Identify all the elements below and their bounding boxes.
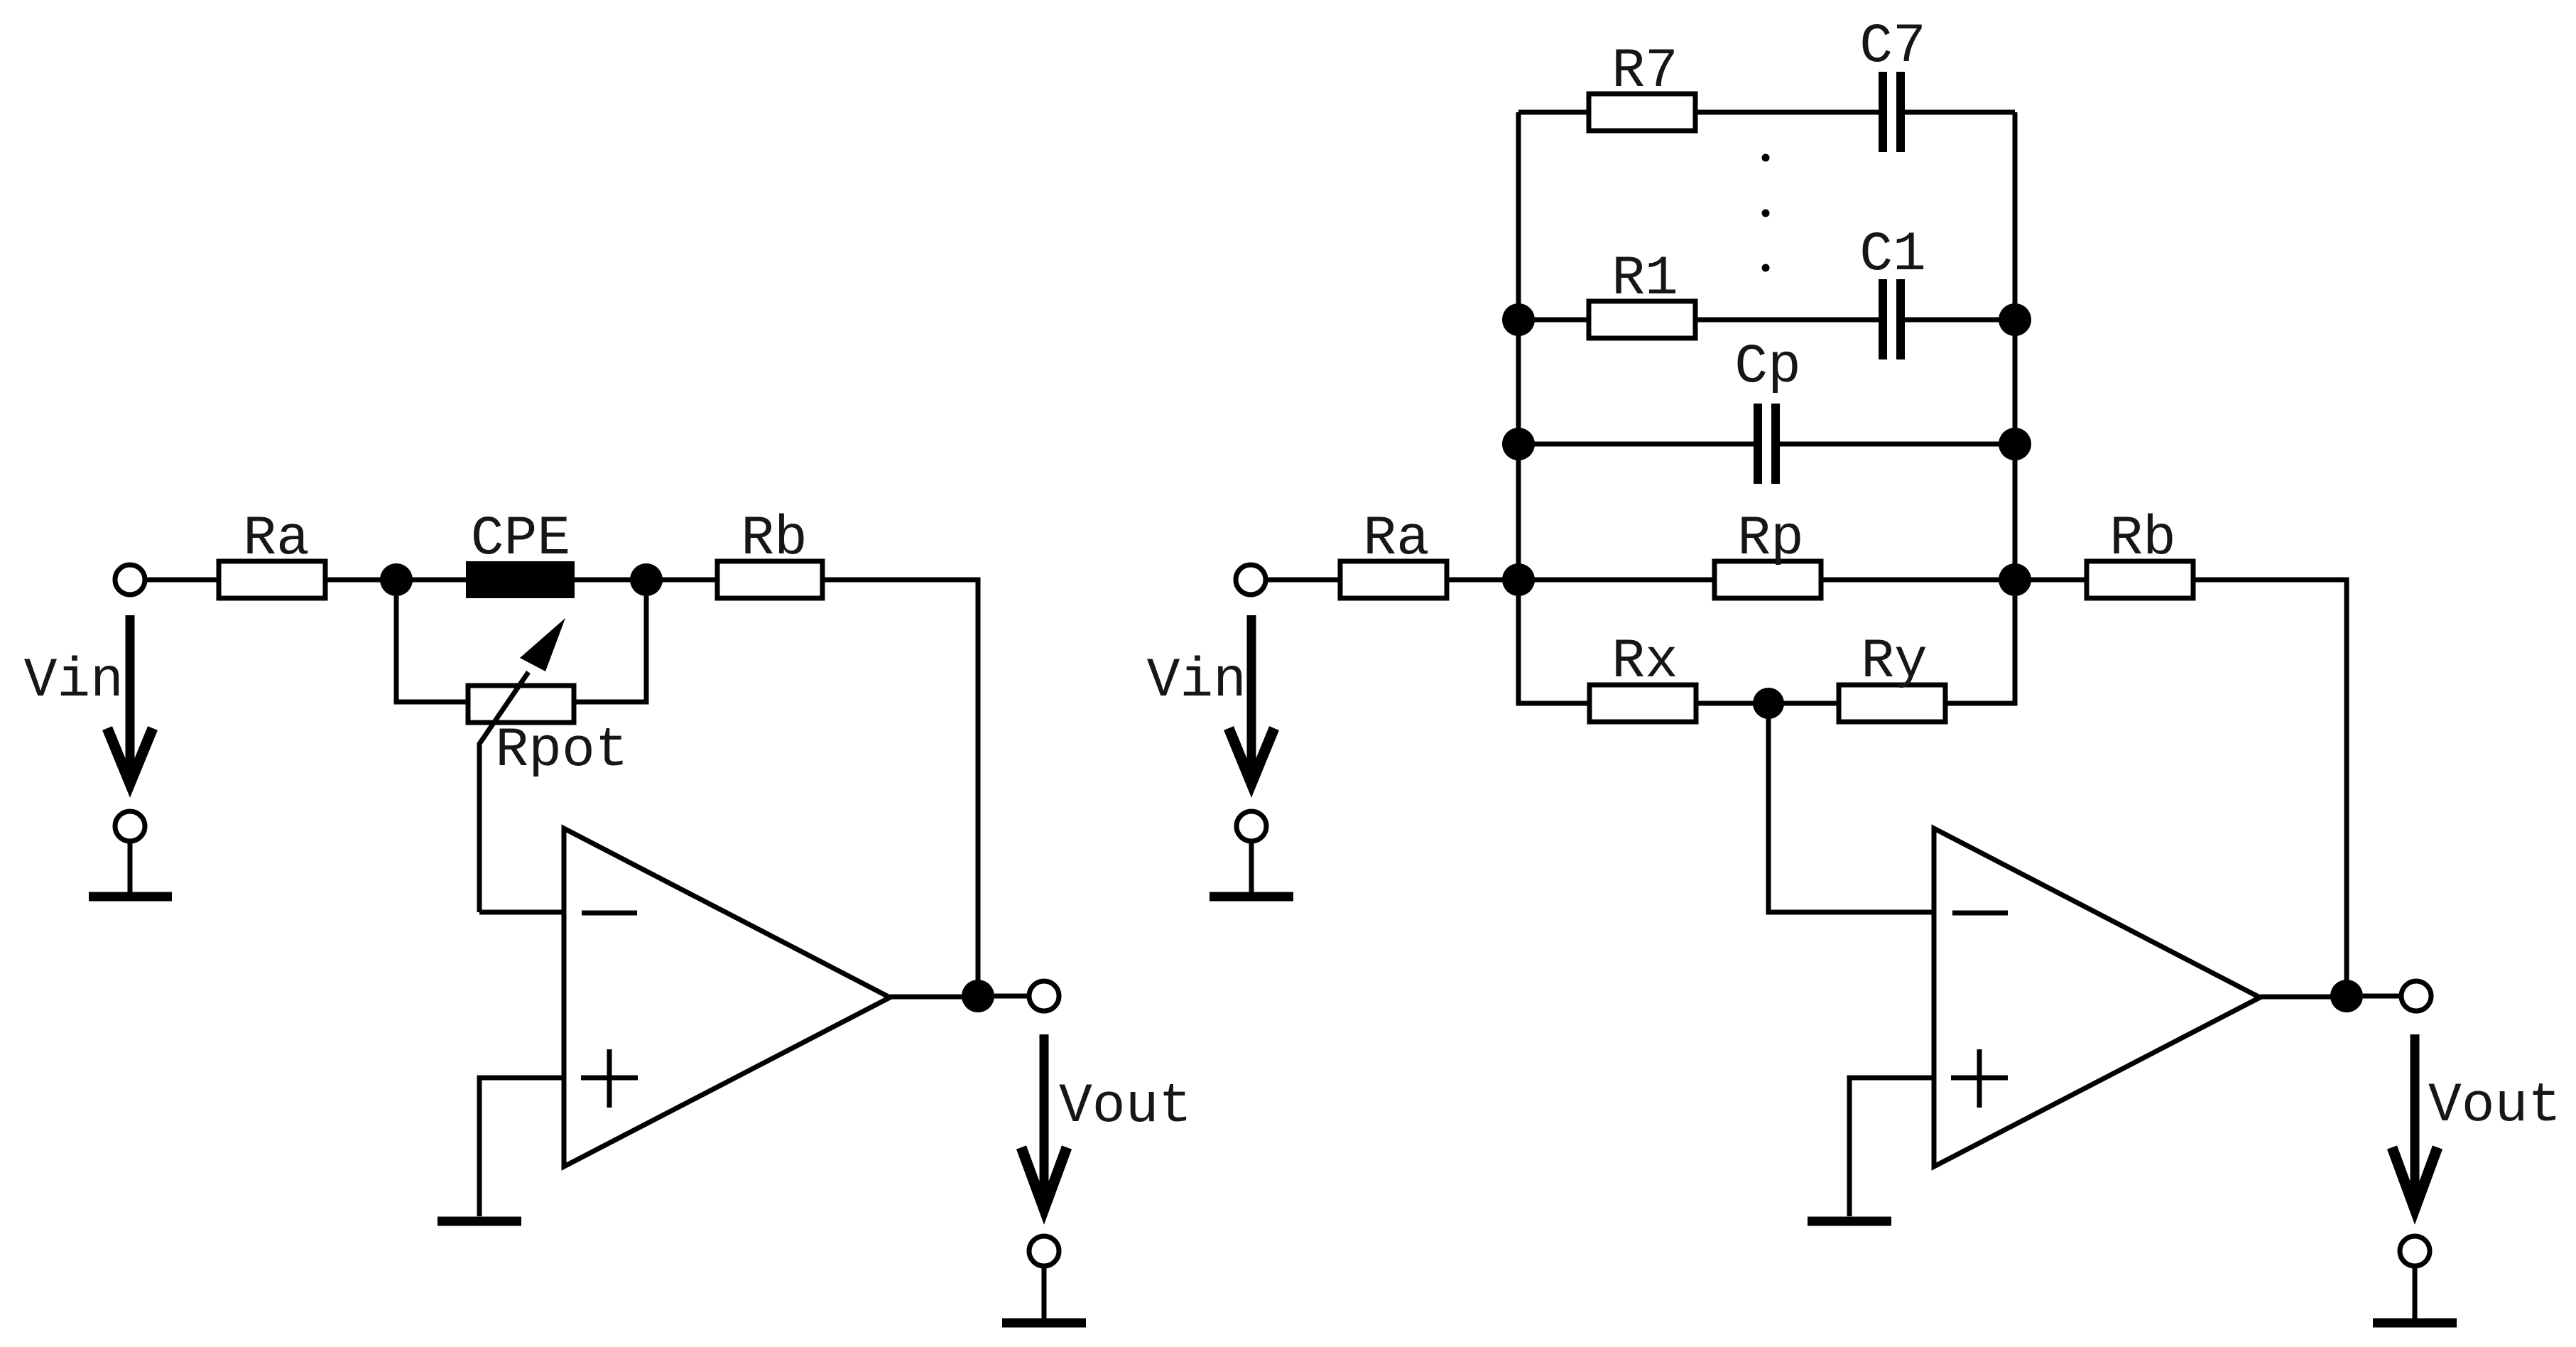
wire Rp to main right node [1821,578,2006,583]
wire op-amp output to node (right) [2260,995,2336,1000]
wire C7 to right rail [1905,110,2015,115]
ground under Vout (left) [1002,1319,1086,1328]
wire Cp branch left [1528,442,1754,447]
node B [630,563,663,596]
output node (right) [2330,980,2363,1012]
wire node A down to Rpot [396,596,468,702]
wire R7 to C7 [1695,110,1879,115]
svg-text:Vin: Vin [1147,650,1246,713]
wire main right node to Rb (right) [2024,578,2087,583]
wire Cp branch right [1780,442,2006,447]
resistor Ra (left) [219,508,325,598]
Rpot wiper arrow [479,618,565,912]
wire node to output terminal (right) [2363,994,2401,999]
Vin arrow (left) [107,615,153,784]
wire input to Ra (right) [1266,578,1340,583]
op-amp U2 (right) [1934,828,2260,1167]
wire input to Ra [145,578,219,583]
Vout arrow (right) [2392,1034,2438,1209]
node R1 branch left [1502,303,1535,336]
Vin arrow (right) [1229,615,1274,784]
divider node between Rx and Ry [1753,688,1784,719]
svg-text:Cp: Cp [1734,336,1801,399]
wire divider node down to op-amp inverting input (right) [1768,703,1934,912]
resistor Rb (left) [717,508,822,598]
resistor R7 [1589,40,1695,131]
potentiometer Rpot [468,686,629,782]
wire non-inverting input (right) [1849,1078,1934,1216]
svg-text:Rb: Rb [741,508,808,570]
wire R1 to C1 [1695,318,1879,323]
resistor Rb (right) [2087,508,2193,598]
svg-text:C7: C7 [1859,16,1926,78]
capacitor C1 [1859,224,1926,359]
left ladder rail [1516,112,1521,580]
wire Ry to right rail bottom [1945,596,2015,703]
svg-text:CPE: CPE [471,508,570,570]
wire node B to Rb [656,578,717,583]
Vin ground terminal (right) [1237,811,1266,892]
ground under Vin (right) [1210,892,1293,902]
node A [380,563,413,596]
wire Rb to feedback corner and down to output node [822,580,978,989]
svg-text:R7: R7 [1612,40,1678,103]
Vout arrow (left) [1021,1034,1067,1209]
wire Rx to divider node [1696,701,1759,706]
node R1 branch right [1999,303,2031,336]
node Cp branch right [1999,428,2031,460]
wire Ra to node A [325,578,387,583]
wire R1 branch left [1528,318,1589,323]
wire C1 to right rail [1905,318,2006,323]
svg-text:Rpot: Rpot [495,720,628,782]
U2 plus sign [1951,1049,2008,1108]
svg-text:R1: R1 [1612,248,1678,310]
op-amp U1 (left) [564,828,890,1167]
U2 minus sign [1952,911,2008,916]
resistor Rx [1589,631,1696,722]
resistor R1 [1589,248,1695,338]
input terminal (right circuit) [1236,565,1266,595]
Vout ground terminal (right) [2400,1236,2430,1319]
svg-text:Ra: Ra [243,508,310,570]
svg-text:Vout: Vout [2428,1075,2561,1137]
Vin ground terminal (left) [115,811,145,892]
ground under Vin (left) [89,892,172,902]
node Cp branch left [1502,428,1535,460]
wire Rb to feedback corner and down to output node (right) [2193,580,2347,989]
main right node [1999,563,2031,596]
ground at U2 + input [1808,1217,1891,1226]
svg-text:Vin: Vin [24,650,124,713]
svg-text:Vout: Vout [1059,1076,1192,1138]
input terminal (left circuit) [115,565,145,595]
svg-text:Rp: Rp [1737,508,1804,570]
U1 plus sign [581,1049,638,1108]
capacitor Cp [1734,336,1801,484]
wire main node down to Rx [1518,596,1589,703]
svg-text:Rb: Rb [2109,508,2176,570]
wire Ra to main node (right) [1447,578,1509,583]
resistor Ra (right) [1340,508,1447,598]
svg-text:Rx: Rx [1612,631,1678,693]
right ladder rail [2013,112,2018,580]
resistor Ry [1839,631,1945,722]
wire main node to Rp [1528,578,1714,583]
resistor Rp [1714,508,1821,598]
ground under Vout (right) [2373,1319,2457,1328]
wire op-amp output to node [890,995,967,1000]
output terminal (right) [2401,981,2431,1011]
svg-text:Ra: Ra [1363,508,1430,570]
wire divider node to Ry [1778,701,1839,706]
Vout ground terminal (left) [1029,1236,1059,1319]
capacitor C7 [1859,16,1926,152]
ground at U1 + input [438,1217,521,1226]
output terminal (left) [1029,981,1059,1011]
wire R7 branch left [1518,110,1589,115]
wire node A to CPE [406,578,466,583]
wire CPE to node B [575,578,637,583]
svg-text:Ry: Ry [1861,631,1928,693]
wire node B down to Rpot [574,596,646,702]
wire node to output terminal [994,994,1029,999]
wire wiper to op-amp inverting input [479,910,564,915]
main left node [1502,563,1535,596]
U1 minus sign [582,911,637,916]
CPE (constant phase element, filled) [466,508,575,598]
wire non-inverting input (left) [479,1078,564,1216]
ellipsis dots between R7 and R1 branches [1762,154,1770,272]
output node (left) [962,980,994,1012]
svg-text:C1: C1 [1859,224,1926,286]
